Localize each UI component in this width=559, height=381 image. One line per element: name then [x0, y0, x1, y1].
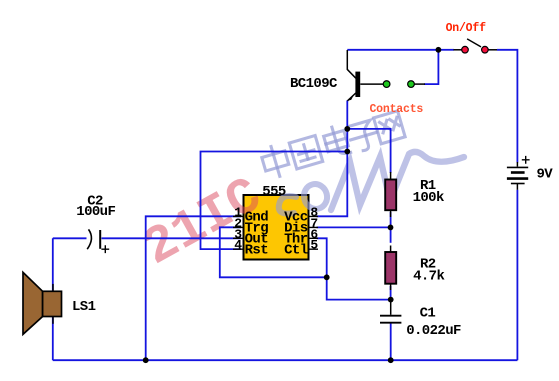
svg-text:4: 4 — [234, 238, 242, 253]
svg-text:100k: 100k — [413, 190, 444, 206]
svg-text:100uF: 100uF — [76, 204, 115, 220]
svg-text:Rst: Rst — [245, 242, 269, 258]
svg-text:9V: 9V — [537, 167, 554, 183]
svg-text:4.7k: 4.7k — [413, 269, 444, 285]
svg-text:Contacts: Contacts — [369, 103, 423, 116]
svg-text:LS1: LS1 — [72, 299, 96, 315]
svg-text:On/Off: On/Off — [446, 22, 487, 35]
svg-text:0.022uF: 0.022uF — [406, 323, 461, 339]
svg-text:Ctl: Ctl — [284, 242, 308, 258]
svg-text:5: 5 — [310, 238, 318, 253]
svg-text:555: 555 — [262, 184, 286, 200]
svg-text:C1: C1 — [420, 306, 436, 322]
svg-text:BC109C: BC109C — [290, 76, 338, 92]
